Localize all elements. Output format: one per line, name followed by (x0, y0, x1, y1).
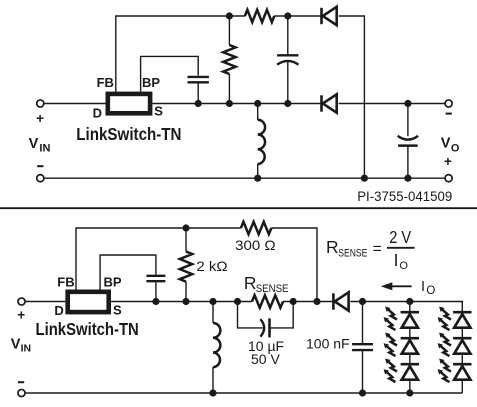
svg-text:2 V: 2 V (389, 227, 411, 247)
svg-text:S: S (113, 303, 122, 318)
svg-text:I: I (394, 250, 399, 270)
svg-text:O: O (426, 285, 435, 297)
svg-text:BP: BP (104, 275, 122, 290)
svg-text:LinkSwitch-TN: LinkSwitch-TN (36, 319, 139, 339)
svg-text:FB: FB (57, 275, 74, 290)
svg-text:V: V (441, 136, 451, 152)
svg-text:D: D (54, 303, 63, 318)
svg-text:I: I (421, 279, 425, 295)
svg-text:V: V (29, 136, 39, 152)
svg-text:+: + (17, 308, 25, 323)
svg-text:IN: IN (21, 342, 32, 354)
svg-text:=: = (373, 241, 382, 258)
svg-text:SENSE: SENSE (256, 283, 289, 295)
svg-text:100 nF: 100 nF (306, 336, 350, 352)
svg-text:O: O (451, 143, 460, 155)
svg-text:R: R (326, 237, 339, 257)
svg-text:PI-3755-041509: PI-3755-041509 (357, 188, 452, 204)
svg-text:O: O (399, 260, 408, 272)
svg-text:V: V (11, 336, 21, 352)
svg-text:S: S (154, 104, 163, 119)
svg-text:+: + (444, 154, 452, 169)
svg-text:LinkSwitch-TN: LinkSwitch-TN (76, 124, 181, 144)
svg-text:R: R (244, 273, 257, 293)
svg-text:+: + (36, 111, 44, 126)
svg-text:IN: IN (39, 143, 50, 155)
svg-text:BP: BP (142, 75, 160, 90)
svg-text:D: D (93, 106, 102, 121)
svg-text:FB: FB (97, 75, 114, 90)
svg-text:300 Ω: 300 Ω (235, 237, 276, 253)
svg-text:2 kΩ: 2 kΩ (196, 258, 227, 274)
svg-text:SENSE: SENSE (338, 248, 367, 260)
svg-text:50 V: 50 V (251, 351, 280, 367)
